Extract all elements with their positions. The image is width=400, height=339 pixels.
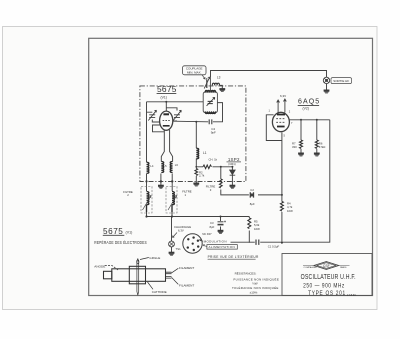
svg-text:CH. 1k: CH. 1k [209,158,218,162]
svg-text:TOLÉRANCE NON INDIQUÉE: TOLÉRANCE NON INDIQUÉE [232,285,279,290]
svg-text:10W: 10W [254,227,260,231]
svg-text:COMPAGNIE: COMPAGNIE [304,266,318,269]
svg-text:FILAMENT: FILAMENT [179,284,194,288]
svg-text:(V1): (V1) [126,230,133,234]
svg-text:10W: 10W [287,209,293,213]
svg-text:17.8.60.: 17.8.60. [347,293,357,297]
svg-text:L3: L3 [217,76,221,80]
svg-text:CATHODE: CATHODE [152,290,167,294]
svg-text:OSCILLATEUR U.H.F.: OSCILLATEUR U.H.F. [301,273,356,281]
svg-text:CSF: CSF [323,264,330,268]
svg-text:MODULATION: MODULATION [204,239,227,243]
svg-text:L1: L1 [203,151,207,155]
svg-text:6,3V: 6,3V [178,229,184,233]
svg-text:MC 300°: MC 300° [202,233,211,236]
svg-text:C1 0,5μF: C1 0,5μF [268,244,280,248]
svg-text:TYPE OS 201: TYPE OS 201 [308,290,346,297]
svg-text:PARIS: PARIS [340,266,347,269]
svg-text:L5: L5 [163,164,167,168]
svg-text:250 — 900 MHz: 250 — 900 MHz [303,283,345,290]
svg-text:6AQ5: 6AQ5 [298,99,320,106]
svg-text:L4: L4 [150,164,154,168]
svg-text:(V1): (V1) [161,96,167,100]
svg-text:FILAMENT: FILAMENT [179,266,194,270]
svg-text:REPÉRAGE DES ÉLECTRODES: REPÉRAGE DES ÉLECTRODES [94,239,147,245]
svg-text:5675: 5675 [157,84,177,94]
svg-text:C2: C2 [250,188,254,192]
svg-text:±10%: ±10% [250,291,258,295]
svg-text:2,7k: 2,7k [199,174,205,178]
svg-text:5675: 5675 [103,227,123,236]
svg-text:6,3V: 6,3V [280,94,286,98]
svg-text:PRISE VUE DE L'EXTÉRIEUR: PRISE VUE DE L'EXTÉRIEUR [208,254,259,259]
svg-text:ALIMENTATION: ALIMENTATION [209,245,236,249]
svg-text:330: 330 [292,145,297,149]
svg-text:(V2): (V2) [303,106,309,110]
svg-text:MIN. MAX.: MIN. MAX. [187,71,202,75]
svg-text:9pF: 9pF [211,131,216,135]
svg-text:ANODE: ANODE [94,265,105,269]
svg-text:8μF: 8μF [210,225,215,229]
svg-text:GRILLE: GRILLE [149,256,160,260]
svg-text:(CR1): (CR1) [228,162,236,166]
svg-text:47kΩ: 47kΩ [319,145,326,149]
svg-text:8μF: 8μF [250,202,255,206]
svg-text:L6: L6 [175,163,179,167]
svg-text:SORTIE HF: SORTIE HF [333,79,349,83]
svg-text:TS1: TS1 [176,247,182,251]
svg-text:RÉSISTANCES:: RÉSISTANCES: [235,270,257,275]
